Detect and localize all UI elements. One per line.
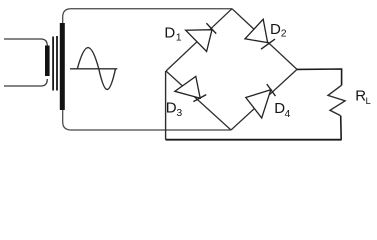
diode D4 triangle: [246, 90, 271, 118]
diode D3 cathode bar: [193, 95, 206, 102]
AC source: sine baseline: [70, 68, 117, 70]
diode D2 cathode bar: [261, 39, 275, 49]
wire: load bottom to bottom rail: [340, 116, 343, 140]
svg-text:D: D: [270, 21, 281, 38]
AC source: sine wave: [77, 48, 115, 90]
transformer primary winding bar: [45, 46, 50, 77]
transformer core line 1: [52, 37, 54, 91]
wire: primary top lead: [4, 39, 47, 46]
svg-text:1: 1: [176, 31, 182, 43]
wire: bridge diagonal, left node to bottom node (D3 branch): [166, 71, 231, 130]
diode D1 triangle: [186, 30, 212, 52]
wire: bridge diagonal, left node to top node (D1 branch): [166, 9, 232, 71]
wire: secondary loop (top edge, rounded left side, bottom edge): [63, 9, 232, 130]
svg-text:4: 4: [285, 108, 291, 120]
wire: left node down to bottom rail: [165, 71, 167, 140]
wire: bridge diagonal, top node to right node (D2 branch): [232, 9, 297, 70]
wire: bottom rail to load: [166, 139, 342, 141]
svg-text:2: 2: [281, 28, 287, 40]
wire: bridge diagonal, bottom node to right node (D4 branch): [231, 69, 297, 130]
diode D4 cathode bar: [267, 84, 276, 96]
diode D1 cathode bar: [206, 23, 216, 33]
wire: right node to load top: [297, 69, 342, 85]
svg-text:D: D: [164, 25, 175, 42]
diode D3 triangle: [175, 76, 200, 98]
resistor RL zigzag: [328, 85, 345, 115]
transformer secondary winding bar: [60, 23, 65, 110]
svg-text:D: D: [166, 100, 177, 117]
diode D2 triangle: [245, 19, 268, 42]
wire: primary bottom lead: [4, 79, 47, 86]
svg-text:3: 3: [176, 107, 182, 119]
transformer core line 2: [56, 36, 58, 91]
svg-text:L: L: [366, 96, 371, 107]
